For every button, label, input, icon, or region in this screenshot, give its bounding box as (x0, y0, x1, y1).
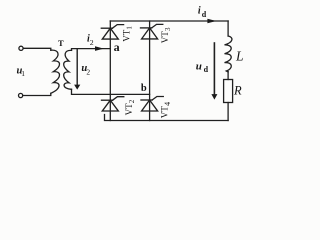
thyristor VT1 cathode bar (101, 27, 112, 29)
svg-text:R: R (233, 84, 242, 98)
terminal upper-left (19, 46, 23, 50)
thyristor VT2 gate (113, 97, 124, 101)
svg-text:T: T (58, 38, 64, 48)
thyristor VT3 cathode bar (141, 27, 152, 29)
svg-text:d: d (202, 10, 207, 19)
id current arrowhead (207, 19, 216, 24)
svg-text:L: L (235, 48, 244, 63)
bridge top rail (110, 20, 228, 22)
wire primary bottom (23, 93, 51, 95)
svg-text:VT3: VT3 (160, 27, 172, 43)
thyristor VT2 triangle (102, 100, 118, 111)
bridge left column (109, 21, 111, 121)
wire resistor to bottom rail (227, 103, 229, 121)
ud voltage arrowhead (211, 94, 217, 100)
svg-text:VT2: VT2 (124, 99, 136, 115)
u2 arrow shaft (76, 49, 78, 85)
svg-text:b: b (141, 83, 147, 94)
thyristor VT1 gate (112, 25, 123, 29)
thyristor VT2 cathode bar (102, 99, 113, 101)
svg-text:a: a (114, 40, 120, 54)
svg-text:i: i (198, 6, 201, 17)
svg-text:VT4: VT4 (160, 102, 172, 118)
svg-text:u: u (196, 60, 202, 72)
transformer secondary winding (64, 50, 72, 89)
wire secondary top to node a (72, 49, 111, 51)
svg-text:d: d (204, 65, 209, 74)
svg-text:VT1: VT1 (121, 26, 133, 42)
bridge right column (149, 21, 151, 121)
i2 current arrowhead (95, 46, 104, 51)
wire primary top (23, 48, 51, 50)
thyristor VT1 triangle (102, 28, 118, 39)
thyristor VT4 triangle (142, 100, 158, 111)
transformer primary winding (51, 50, 60, 93)
svg-text:2: 2 (90, 38, 94, 47)
u2 voltage arrowhead (74, 85, 80, 90)
resistor R box (224, 80, 233, 103)
thyristor VT4 cathode bar (141, 99, 152, 101)
thyristor VT3 triangle (142, 28, 158, 39)
ud arrow shaft (213, 42, 215, 95)
terminal lower-left (19, 93, 23, 97)
load branch top wire (227, 21, 229, 36)
thyristor VT4 gate (152, 97, 163, 101)
svg-text:2: 2 (86, 68, 90, 77)
inductor L winding (225, 36, 232, 72)
bridge bottom rail (105, 115, 229, 121)
svg-text:1: 1 (21, 69, 25, 78)
thyristor VT3 gate (152, 24, 163, 28)
wire secondary bottom to node b (72, 89, 150, 94)
wire inductor to resistor (227, 72, 229, 80)
